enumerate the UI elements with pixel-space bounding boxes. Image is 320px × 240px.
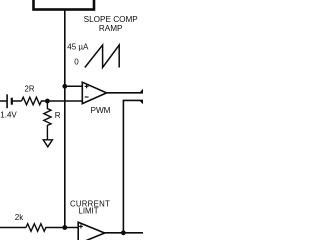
wire: current limit output to right edge bbox=[105, 232, 143, 234]
node: junction dot ramp line to 2k wire bbox=[62, 225, 67, 230]
wire: current limit feedback L to right edge bbox=[123, 100, 143, 232]
svg-text:RAMP: RAMP bbox=[99, 24, 123, 33]
wire: left edge to 2k bbox=[0, 227, 26, 229]
svg-text:0: 0 bbox=[74, 57, 79, 66]
off-page arrow (current source) bbox=[43, 140, 52, 147]
pin - of PWM bbox=[85, 96, 89, 98]
svg-text:2k: 2k bbox=[15, 213, 24, 222]
svg-text:2R: 2R bbox=[25, 85, 35, 94]
wire: PWM output to right edge bbox=[107, 92, 143, 94]
resistor 2R bbox=[22, 97, 48, 105]
wire: PWM - input bbox=[47, 100, 82, 102]
svg-text:R: R bbox=[55, 111, 61, 120]
svg-text:1.4V: 1.4V bbox=[0, 111, 17, 120]
node: junction dot ramp to PWM + input bbox=[62, 84, 67, 89]
ramp waveform bbox=[85, 45, 119, 68]
wire: battery to 2R bbox=[0, 100, 7, 102]
oscillator block U1 (top box, cropped) bbox=[34, 0, 95, 10]
pin + of PWM bbox=[85, 84, 89, 88]
resistor R bbox=[44, 101, 51, 140]
svg-text:SLOPE COMP: SLOPE COMP bbox=[84, 15, 139, 24]
wire: ramp node vertical from box to current-limit input bbox=[64, 10, 66, 228]
pin + of current limit comparator bbox=[79, 224, 83, 228]
node: junction dot output / feedback L bbox=[121, 230, 126, 235]
comparator U3 CURRENT LIMIT (cropped) bbox=[78, 222, 104, 240]
node: junction dot 2R / R divider bbox=[45, 99, 50, 104]
battery V1 1.4V bbox=[6, 94, 8, 108]
arrow into latch (second, cropped) bbox=[140, 101, 143, 104]
wire: PWM + input bbox=[65, 85, 83, 87]
comparator U2 PWM bbox=[82, 82, 106, 103]
arrow into latch (top, cropped) bbox=[140, 89, 143, 92]
svg-text:PWM: PWM bbox=[90, 106, 110, 115]
svg-text:LIMIT: LIMIT bbox=[79, 207, 99, 216]
resistor 2k bbox=[26, 224, 78, 232]
svg-text:45 µA: 45 µA bbox=[67, 43, 89, 52]
